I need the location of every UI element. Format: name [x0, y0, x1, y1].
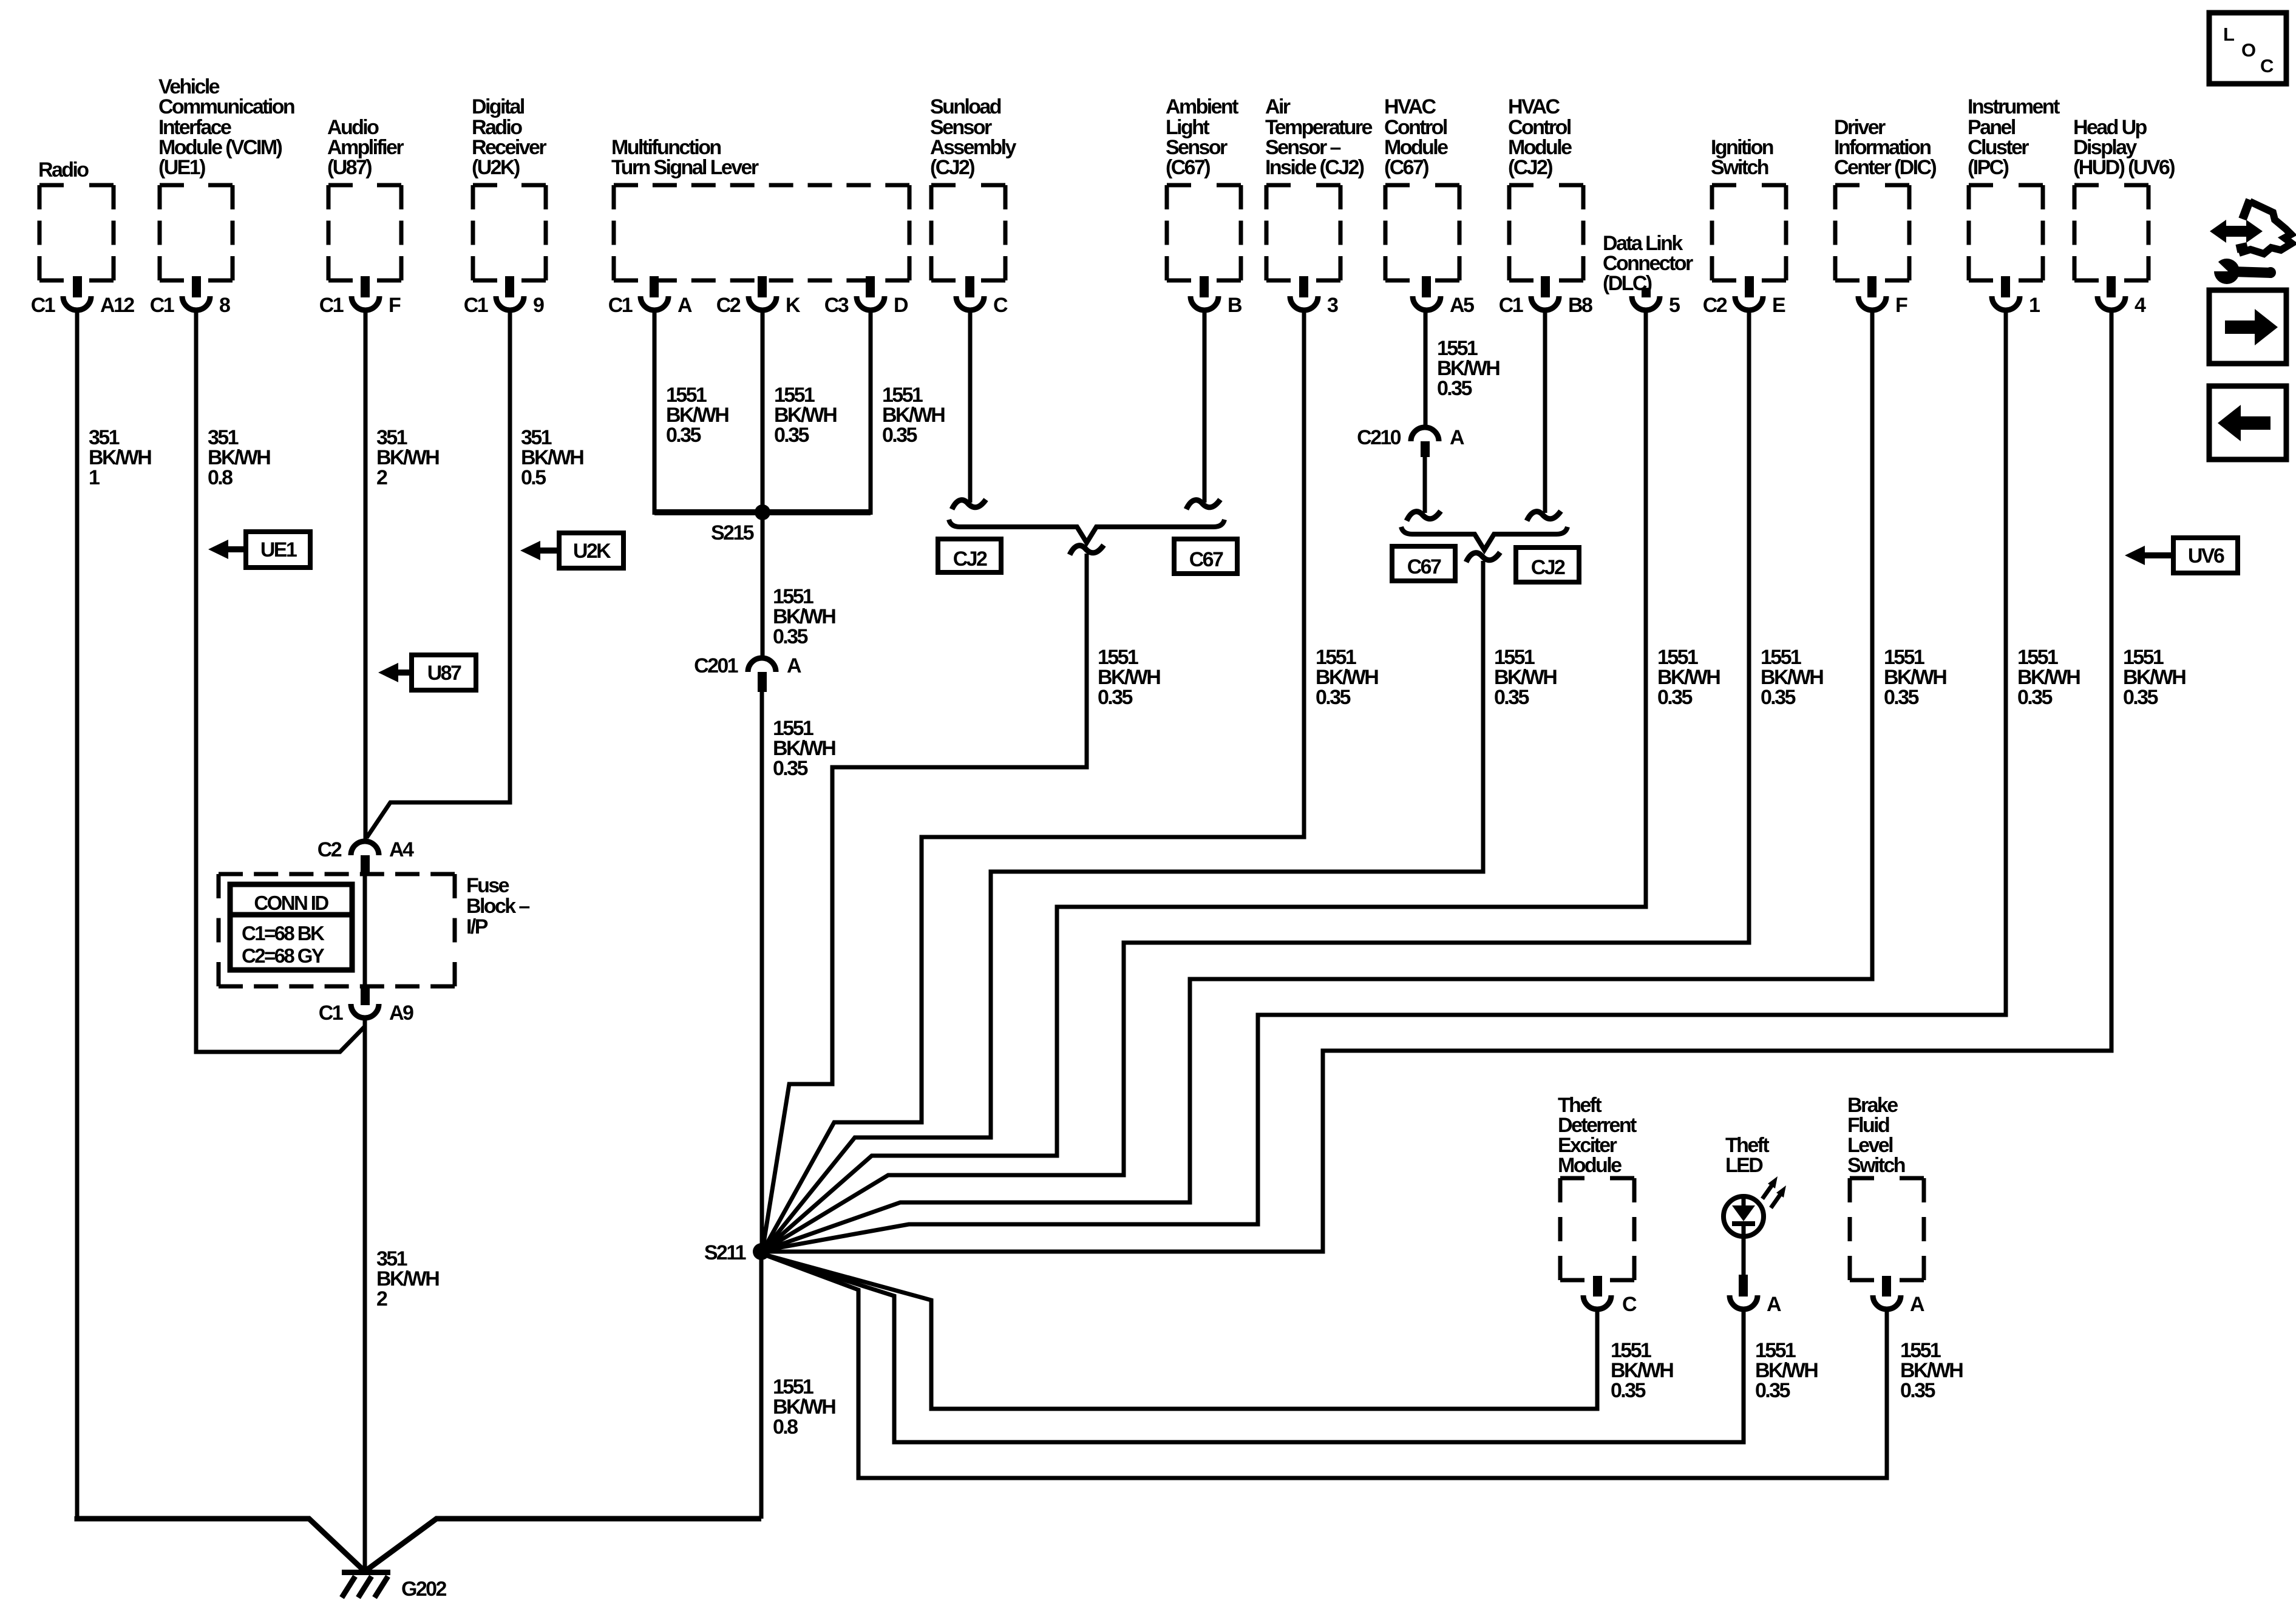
- svg-text:(CJ2): (CJ2): [1508, 156, 1552, 179]
- connector pin B (x=1984) stub and cup: [1200, 276, 1209, 297]
- svg-text:Sunload: Sunload: [930, 95, 1001, 118]
- wire Sunload C down to break: [968, 309, 973, 503]
- connector pin C stub and cup (exciter): [1593, 1276, 1602, 1297]
- off-page arrow U2K: [559, 533, 623, 568]
- connector pin E (x=2881) stub and cup: [1745, 276, 1754, 297]
- icon right-arrow box: [2209, 290, 2286, 364]
- svg-text:(C67): (C67): [1166, 156, 1210, 179]
- wire brake fluid A to S211: [763, 1254, 1887, 1478]
- connector pin F (x=3084) stub and cup: [1867, 276, 1877, 297]
- svg-text:0.35: 0.35: [1755, 1379, 1790, 1402]
- wire U2K C1-9 down with jog into A4 wire: [367, 309, 510, 838]
- svg-text:(U2K): (U2K): [472, 156, 520, 179]
- break symbol below left brace: [1070, 545, 1104, 555]
- wire HUD 4 down-left into S211: [766, 309, 2111, 1252]
- svg-text:CJ2: CJ2: [1531, 556, 1565, 579]
- svg-text:C1: C1: [1499, 294, 1523, 317]
- connector pin A12 (x=127) stub and cup: [73, 276, 82, 297]
- connector pin 8 (x=323) stub and cup: [192, 276, 201, 297]
- svg-text:C1: C1: [319, 294, 344, 317]
- svg-text:UE1: UE1: [260, 538, 297, 561]
- svg-text:C2: C2: [716, 294, 741, 317]
- component HVAC Control Module (CJ2) dashed box: [1509, 183, 1583, 188]
- wire Ambient B down to break: [1203, 309, 1207, 503]
- component Theft Deterrent Exciter Module dashed box: [1560, 1176, 1634, 1181]
- wire combined sunload/ambient down-left-down to S211 shelf: [763, 554, 1087, 1250]
- svg-text:0.35: 0.35: [666, 424, 701, 447]
- svg-text:(HUD) (UV6): (HUD) (UV6): [2073, 156, 2175, 179]
- svg-text:CONN ID: CONN ID: [254, 892, 328, 914]
- splice bus S215 horizontal: [654, 509, 871, 515]
- svg-text:C: C: [1622, 1293, 1637, 1316]
- wire MTSL C2-K down to S215: [761, 309, 765, 512]
- svg-text:F: F: [389, 294, 401, 317]
- svg-text:C1: C1: [319, 1002, 343, 1025]
- svg-text:HVAC: HVAC: [1384, 95, 1436, 118]
- svg-text:E: E: [1772, 294, 1785, 317]
- svg-text:Center (DIC): Center (DIC): [1834, 156, 1936, 179]
- break symbol on HVAC B8 wire: [1527, 511, 1561, 521]
- component Theft LED symbol: [1724, 1196, 1764, 1236]
- svg-text:C3: C3: [824, 294, 849, 317]
- svg-text:C1: C1: [31, 294, 55, 317]
- svg-text:A5: A5: [1450, 294, 1474, 317]
- wire Ignition E down-left-down to S211 shelf: [764, 309, 1749, 1250]
- svg-text:A: A: [1450, 426, 1464, 449]
- svg-text:(IPC): (IPC): [1968, 156, 2009, 179]
- wire combined HVAC down-left-down to S211 shelf: [764, 561, 1483, 1250]
- wire IPC 1 down-left-down to S211 shelf: [764, 309, 2006, 1250]
- wire MTSL C1-A down to S215 bus: [653, 309, 657, 515]
- svg-text:(UE1): (UE1): [158, 156, 205, 179]
- connector C1/A9 stub: [361, 986, 370, 1005]
- svg-text:0.35: 0.35: [1761, 686, 1795, 709]
- wire S211 down to bottom bus: [759, 1252, 764, 1519]
- svg-text:0.35: 0.35: [2123, 686, 2158, 709]
- svg-text:Block –: Block –: [466, 895, 529, 918]
- svg-text:Switch: Switch: [1847, 1154, 1905, 1177]
- svg-text:Instrument: Instrument: [1968, 95, 2060, 118]
- svg-text:A4: A4: [389, 838, 414, 861]
- svg-text:Module: Module: [1558, 1154, 1622, 1177]
- svg-text:G202: G202: [401, 1578, 446, 1601]
- svg-text:A: A: [1910, 1293, 1924, 1316]
- option box CJ2 (left): [938, 539, 1001, 572]
- component Brake Fluid Level Switch dashed box: [1850, 1176, 1924, 1181]
- svg-text:S211: S211: [704, 1241, 746, 1264]
- CONN ID table box: [230, 884, 352, 970]
- connector pin A5 (x=2350) stub and cup: [1422, 276, 1431, 297]
- svg-text:(CJ2): (CJ2): [930, 156, 974, 179]
- wire S215 down to C201: [761, 512, 765, 659]
- svg-text:O: O: [2241, 39, 2255, 61]
- component Multifunction Turn Signal Lever dashed box: [614, 183, 909, 188]
- component Instrument Panel Cluster (IPC) dashed box: [1969, 183, 2043, 188]
- svg-text:L: L: [2223, 24, 2234, 45]
- off-page arrow UV6: [2173, 538, 2238, 573]
- svg-text:C1=68 BK: C1=68 BK: [242, 922, 325, 944]
- icon hand with wrench: [2224, 226, 2249, 237]
- wire Theft LED anode down to pin: [1742, 1236, 1746, 1278]
- component Audio Amplifier (U87) dashed box: [328, 183, 401, 188]
- svg-text:5: 5: [1669, 294, 1680, 317]
- svg-text:9: 9: [533, 294, 544, 317]
- svg-text:0.5: 0.5: [521, 466, 546, 489]
- option box CJ2 (HVAC right): [1516, 547, 1579, 582]
- svg-text:0.35: 0.35: [1611, 1379, 1645, 1402]
- svg-text:0.35: 0.35: [773, 757, 807, 780]
- svg-text:Digital: Digital: [472, 95, 525, 118]
- svg-text:0.35: 0.35: [1437, 377, 1472, 400]
- wire HVAC B8 down to break: [1543, 309, 1547, 513]
- connector pin 5 (x=2711) stub and cup: [1642, 288, 1651, 297]
- wire MTSL C3-D down to S215 bus: [869, 309, 873, 515]
- wire U87 C1-F down to fuse block pin A4: [364, 309, 368, 841]
- svg-text:1: 1: [2029, 294, 2040, 317]
- wire LED A to S211: [763, 1254, 1744, 1442]
- connector C210 cup: [1411, 427, 1439, 441]
- svg-text:C67: C67: [1407, 555, 1441, 578]
- svg-text:Communication: Communication: [158, 95, 294, 118]
- connector pin A stub and cup (LED): [1739, 1275, 1748, 1297]
- svg-text:A: A: [1767, 1293, 1781, 1316]
- off-page arrow U87: [412, 655, 476, 690]
- component Air Temperature Sensor - Inside (CJ2) dashed box: [1266, 183, 1340, 188]
- component Digital Radio Receiver (U2K) dashed box: [473, 183, 546, 188]
- svg-text:B: B: [1228, 294, 1242, 317]
- connector pin A stub and cup (brake fluid): [1882, 1276, 1891, 1297]
- svg-text:U87: U87: [427, 662, 461, 685]
- connector pin 3 (x=2148) stub and cup: [1299, 276, 1308, 297]
- wire C201 down to S211: [760, 692, 764, 1252]
- svg-text:CJ2: CJ2: [953, 547, 987, 571]
- wire bottom bus from Radio to ground: [77, 1516, 364, 1571]
- option box C67 (HVAC left): [1392, 546, 1455, 581]
- svg-text:A: A: [678, 294, 692, 317]
- Theft LED light rays: [1762, 1182, 1774, 1199]
- component Radio dashed box: [39, 183, 114, 188]
- wire Radio C1-A12 down to bottom bus: [75, 309, 80, 1519]
- splice junction dot S211: [753, 1243, 770, 1260]
- svg-text:S215: S215: [711, 521, 754, 544]
- svg-text:D: D: [894, 294, 908, 317]
- connector pin D (x=1434) stub and cup: [866, 276, 875, 297]
- svg-text:C201: C201: [694, 654, 738, 677]
- svg-text:C2: C2: [318, 838, 342, 861]
- connector pin K (x=1256) stub and cup: [758, 276, 767, 297]
- wire HVAC A5 down to C210: [1424, 309, 1428, 427]
- connector pin C (x=1598) stub and cup: [965, 276, 974, 297]
- wire Air Temperature 3 down-left-down to S211 shelf: [764, 309, 1304, 1249]
- svg-text:0.35: 0.35: [774, 424, 809, 447]
- wire C210 down to break: [1423, 457, 1427, 513]
- svg-text:Fuse: Fuse: [466, 874, 509, 897]
- svg-text:Ambient: Ambient: [1166, 95, 1238, 118]
- splice junction dot S215: [755, 504, 770, 520]
- connector C201 cup: [748, 658, 776, 672]
- svg-text:4: 4: [2135, 294, 2146, 317]
- svg-text:Inside (CJ2): Inside (CJ2): [1265, 156, 1364, 179]
- wire exciter C to S211: [763, 1254, 1597, 1409]
- break symbol on Ambient wire: [1186, 500, 1220, 509]
- svg-text:U2K: U2K: [573, 540, 611, 563]
- svg-text:C: C: [993, 294, 1008, 317]
- component HVAC Control Module (C67) dashed box: [1385, 183, 1459, 188]
- wire DIC F down-left-down to S211 shelf: [764, 309, 1872, 1250]
- connector pin A (x=1078) stub and cup: [650, 276, 659, 297]
- svg-text:0.35: 0.35: [773, 625, 807, 648]
- connector C210 stub: [1421, 441, 1430, 457]
- svg-text:C210: C210: [1357, 426, 1401, 449]
- svg-text:HVAC: HVAC: [1508, 95, 1560, 118]
- connector pin B8 (x=2545) stub and cup: [1541, 276, 1550, 297]
- svg-text:2: 2: [376, 466, 387, 489]
- component Ignition Switch dashed box: [1712, 183, 1786, 188]
- svg-text:(C67): (C67): [1384, 156, 1428, 179]
- svg-text:C2: C2: [1703, 294, 1727, 317]
- svg-text:A12: A12: [100, 294, 134, 317]
- connector pin 9 (x=840) stub and cup: [505, 276, 514, 297]
- svg-text:B8: B8: [1568, 294, 1592, 317]
- component Fuse Block - I/P dashed box: [219, 872, 455, 876]
- break symbol on HVAC A5 wire: [1407, 511, 1441, 521]
- svg-text:1: 1: [89, 466, 100, 489]
- svg-text:UV6: UV6: [2188, 544, 2224, 568]
- svg-text:C1: C1: [608, 294, 633, 317]
- icon left-arrow box: [2209, 386, 2286, 459]
- component Head Up Display (HUD) (UV6) dashed box: [2074, 183, 2148, 188]
- svg-text:A9: A9: [389, 1002, 413, 1025]
- break symbol below right brace: [1466, 552, 1500, 562]
- ground symbol G202: [342, 1570, 390, 1575]
- svg-text:8: 8: [219, 294, 230, 317]
- svg-text:3: 3: [1327, 294, 1338, 317]
- icon LOC box: [2209, 13, 2286, 84]
- svg-text:Switch: Switch: [1711, 156, 1768, 179]
- connector pin F (x=602) stub and cup: [361, 276, 370, 297]
- svg-text:F: F: [1895, 294, 1907, 317]
- wire VCIM C1-8 down with jog into A9 wire: [196, 309, 365, 1052]
- component Sunload Sensor Assembly (CJ2) dashed box: [931, 183, 1005, 188]
- connector pin 4 (x=3478) stub and cup: [2107, 276, 2116, 297]
- connector C1/A9 cup: [351, 1004, 379, 1018]
- svg-text:C67: C67: [1189, 548, 1223, 571]
- connector C2/A4 cup at fuse block: [351, 841, 379, 855]
- svg-text:0.35: 0.35: [882, 424, 917, 447]
- connector C2/A4 stub: [361, 855, 370, 875]
- svg-text:C1: C1: [150, 294, 174, 317]
- wire A9 down to ground G202: [363, 1017, 367, 1572]
- svg-text:LED: LED: [1725, 1154, 1763, 1177]
- wire DLC 5 down-left-down to S211 shelf: [764, 309, 1646, 1250]
- off-page arrow UE1: [246, 532, 310, 568]
- svg-text:0.35: 0.35: [1900, 1379, 1935, 1402]
- svg-text:C: C: [2260, 55, 2274, 76]
- svg-text:0.35: 0.35: [1098, 686, 1132, 709]
- component Driver Information Center (DIC) dashed box: [1835, 183, 1909, 188]
- svg-text:C1: C1: [464, 294, 488, 317]
- svg-text:C2=68 GY: C2=68 GY: [242, 944, 325, 967]
- connector C201 stub: [758, 672, 767, 692]
- option brace C67/CJ2 (HVAC): [1401, 527, 1567, 550]
- wire bottom bus from S211 to ground: [365, 1519, 761, 1571]
- svg-text:(U87): (U87): [327, 156, 372, 179]
- fuse block internal wire A4 to A9: [363, 875, 367, 986]
- svg-text:2: 2: [376, 1287, 387, 1310]
- svg-text:0.35: 0.35: [1657, 686, 1692, 709]
- svg-text:0.35: 0.35: [1884, 686, 1918, 709]
- break symbol on Sunload wire: [952, 500, 986, 509]
- svg-text:Air: Air: [1265, 95, 1291, 118]
- svg-text:K: K: [786, 294, 801, 317]
- component Ambient Light Sensor (C67) dashed box: [1167, 183, 1241, 188]
- svg-text:0.8: 0.8: [773, 1415, 798, 1439]
- svg-text:0.35: 0.35: [1494, 686, 1529, 709]
- svg-text:0.35: 0.35: [2017, 686, 2052, 709]
- connector pin 1 (x=3304) stub and cup: [2001, 276, 2010, 297]
- svg-text:Radio: Radio: [38, 158, 89, 181]
- component Vehicle Communication Interface Module (VCIM) (UE1) dashed box: [160, 183, 233, 188]
- svg-text:0.8: 0.8: [208, 466, 233, 489]
- svg-text:0.35: 0.35: [1316, 686, 1350, 709]
- svg-text:Turn Signal Lever: Turn Signal Lever: [611, 156, 759, 179]
- option box C67 (right): [1174, 539, 1237, 574]
- svg-text:A: A: [787, 654, 801, 677]
- option brace CJ2/C67 (sunload-ambient): [949, 520, 1224, 543]
- svg-text:I/P: I/P: [466, 915, 488, 938]
